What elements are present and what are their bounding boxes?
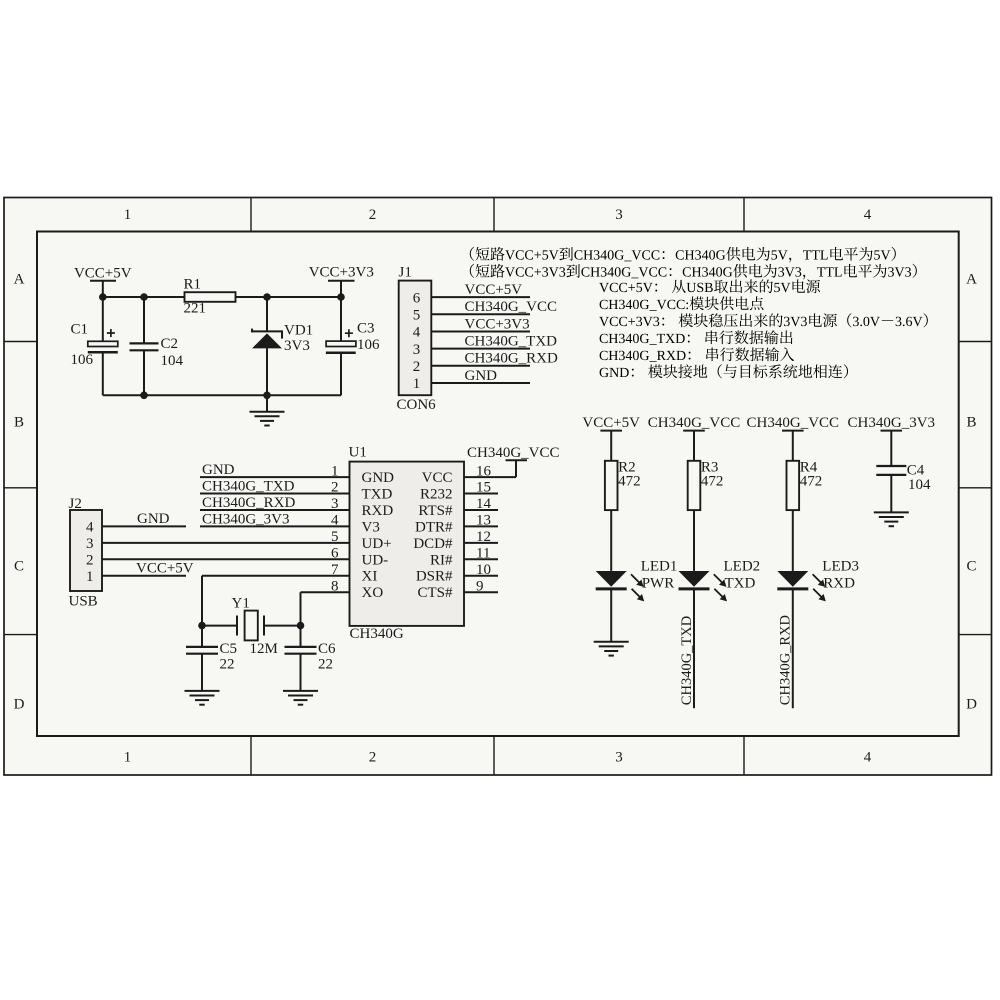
svg-text:VCC+3V3: VCC+3V3 <box>465 316 530 332</box>
svg-text:R232: R232 <box>420 487 453 503</box>
svg-text:RXD: RXD <box>362 503 394 519</box>
svg-text:3: 3 <box>86 536 94 552</box>
wire U1 pin 3 net CH340G_RXD <box>200 495 350 511</box>
svg-text:2: 2 <box>86 553 94 569</box>
svg-text:22: 22 <box>318 657 333 673</box>
svg-text:4: 4 <box>864 207 872 223</box>
wire J1 pin 5 net CH340G_VCC <box>431 299 557 315</box>
svg-text:C1: C1 <box>71 322 89 338</box>
svg-text:4: 4 <box>86 520 94 536</box>
wire U1 pin 15 stub <box>464 493 498 495</box>
svg-text:C: C <box>14 559 24 575</box>
svg-text:CON6: CON6 <box>397 397 437 413</box>
svg-text:CH340G_RXD: CH340G_RXD <box>465 351 559 367</box>
svg-text:VCC: VCC <box>422 470 453 486</box>
capacitor C5 22 <box>186 626 237 691</box>
wire U1 pin 16 VCC <box>464 461 516 477</box>
wire LED3 net CH340G_RXD <box>778 590 794 709</box>
svg-text:RXD: RXD <box>823 575 855 591</box>
svg-text:B: B <box>966 415 976 431</box>
svg-text:472: 472 <box>701 473 724 489</box>
svg-text:1: 1 <box>86 569 94 585</box>
ground symbol C5 <box>185 691 220 705</box>
wire U1 pin 11 stub <box>464 558 498 560</box>
wire U1 pin 4 net CH340G_3V3 <box>200 511 350 527</box>
LED LED3 RXD <box>777 558 859 601</box>
svg-text:GND: GND <box>202 462 235 478</box>
svg-text:1: 1 <box>124 207 132 223</box>
net label VCC+5V <box>582 415 640 461</box>
connector J1 CON6 <box>397 265 437 414</box>
annotation line 1 <box>470 247 896 263</box>
crystal Y1 12M <box>202 596 301 658</box>
svg-text:UD+: UD+ <box>362 536 392 552</box>
wire J2 pin 4 net GND <box>102 511 186 527</box>
net label CH340G_VCC <box>747 415 840 461</box>
J2 pin numbers <box>86 520 94 585</box>
wire U1 pin 13 stub <box>464 525 498 527</box>
wire U1 pin 1 net GND <box>200 462 350 478</box>
capacitor C3 electrolytic 106 <box>326 297 380 395</box>
svg-text:2: 2 <box>369 207 377 223</box>
svg-text:USB: USB <box>69 594 98 610</box>
annotation line 3 <box>599 279 820 293</box>
resistor R1 <box>184 277 236 317</box>
svg-text:GND: GND <box>137 511 170 527</box>
svg-text:V3: V3 <box>362 519 380 535</box>
svg-text:Y1: Y1 <box>232 596 250 612</box>
connector J2 USB <box>69 496 103 610</box>
svg-text:CH340G_TXD: CH340G_TXD <box>465 333 558 349</box>
svg-text:C2: C2 <box>161 336 179 352</box>
svg-text:472: 472 <box>618 473 641 489</box>
svg-text:2: 2 <box>369 750 377 766</box>
junction dots on +5V rail <box>99 293 345 301</box>
wire U1 pin 7 XI <box>202 576 350 626</box>
svg-text:DSR#: DSR# <box>416 569 453 585</box>
svg-text:CH340G_RXD: CH340G_RXD <box>202 495 296 511</box>
svg-text:LED2: LED2 <box>724 558 761 574</box>
wire J2 pin 1 net VCC+5V <box>102 561 194 577</box>
annotation line 4 <box>600 296 764 310</box>
svg-text:RTS#: RTS# <box>418 503 453 519</box>
svg-text:VCC+3V3: VCC+3V3 <box>309 265 374 281</box>
svg-text:XO: XO <box>362 585 384 601</box>
svg-text:LED3: LED3 <box>822 558 859 574</box>
wire J1 pin 1 net GND <box>431 368 530 384</box>
junction XO node <box>297 622 305 630</box>
svg-text:A: A <box>966 272 977 288</box>
wire U1 pin 8 XO <box>301 592 350 625</box>
svg-text:C3: C3 <box>357 321 375 337</box>
svg-text:CH340G_3V3: CH340G_3V3 <box>848 415 936 431</box>
ground symbol LED1 <box>594 642 629 656</box>
annotation line 5 <box>599 313 928 327</box>
wire J1 pin 4 net VCC+3V3 <box>431 316 530 332</box>
LED LED1 PWR <box>596 558 678 601</box>
junction XI node <box>198 622 206 630</box>
resistor R2 472 <box>605 459 641 510</box>
net label VCC+3V3 <box>309 265 374 298</box>
wire U1 pin 12 stub <box>464 542 498 544</box>
svg-text:C5: C5 <box>220 641 238 657</box>
svg-text:GND: GND <box>362 470 395 486</box>
annotation line 6 <box>600 330 793 345</box>
capacitor C2 104 <box>130 297 184 395</box>
J1 pin numbers <box>413 290 421 392</box>
svg-text:CH340G_3V3: CH340G_3V3 <box>202 511 290 527</box>
wire R3 to LED2 <box>693 510 695 571</box>
svg-text:2: 2 <box>413 359 421 375</box>
svg-text:R1: R1 <box>184 277 202 293</box>
svg-text:XI: XI <box>362 569 378 585</box>
svg-text:12M: 12M <box>250 641 278 657</box>
capacitor C1 electrolytic 106 <box>71 297 118 395</box>
svg-text:GND: GND <box>465 368 498 384</box>
wire +5V rail <box>103 296 341 298</box>
wire J2 pin 3 to U1 UD+ <box>102 542 350 544</box>
svg-text:TXD: TXD <box>362 487 393 503</box>
svg-text:CH340G_VCC: CH340G_VCC <box>467 445 560 461</box>
resistor R4 472 <box>787 459 823 510</box>
net label CH340G_VCC <box>648 415 741 461</box>
junction dots on ground rail <box>140 392 271 400</box>
svg-text:DCD#: DCD# <box>413 536 453 552</box>
wire J1 pin 6 net VCC+5V <box>431 282 530 298</box>
ground symbol power section <box>250 395 285 425</box>
svg-text:VCC+5V: VCC+5V <box>136 561 194 577</box>
svg-text:J1: J1 <box>399 265 412 281</box>
svg-text:CH340G_VCC: CH340G_VCC <box>747 415 840 431</box>
wire ground rail <box>103 394 341 396</box>
svg-text:104: 104 <box>908 477 931 493</box>
svg-text:U1: U1 <box>349 445 367 461</box>
svg-text:TXD: TXD <box>725 575 756 591</box>
resistor R3 472 <box>688 459 724 510</box>
capacitor C4 104 <box>876 463 931 512</box>
svg-text:1: 1 <box>413 376 421 392</box>
wire U1 pin 9 stub <box>464 591 498 593</box>
svg-text:VCC+5V: VCC+5V <box>582 415 640 431</box>
svg-text:CH340G_TXD: CH340G_TXD <box>202 479 295 495</box>
LED LED2 TXD <box>679 558 761 601</box>
svg-text:RI#: RI# <box>430 552 453 568</box>
svg-text:22: 22 <box>220 657 235 673</box>
svg-text:CTS#: CTS# <box>417 585 453 601</box>
svg-text:D: D <box>14 697 25 713</box>
svg-text:C6: C6 <box>318 641 336 657</box>
svg-text:PWR: PWR <box>642 575 675 591</box>
IC U1 CH340G <box>349 445 465 643</box>
svg-text:D: D <box>966 697 977 713</box>
svg-text:CH340G_RXD: CH340G_RXD <box>778 615 794 705</box>
svg-text:VCC+5V: VCC+5V <box>74 266 132 282</box>
wire J2 pin 2 to U1 UD- <box>102 558 350 560</box>
svg-text:LED1: LED1 <box>641 558 678 574</box>
wire J1 pin 3 net CH340G_TXD <box>431 333 557 349</box>
svg-text:VCC+5V: VCC+5V <box>465 282 523 298</box>
svg-text:6: 6 <box>413 290 421 306</box>
svg-text:B: B <box>14 415 24 431</box>
capacitor C6 22 <box>285 626 337 691</box>
svg-text:CH340G_VCC: CH340G_VCC <box>465 299 558 315</box>
svg-text:CH340G_TXD: CH340G_TXD <box>679 616 695 705</box>
U1 left pin numbers 1-8 <box>331 463 339 594</box>
wire LED2 net CH340G_TXD <box>679 590 695 709</box>
ground symbol C6 <box>283 691 318 705</box>
svg-text:CH340G: CH340G <box>350 626 404 642</box>
wire R4 to LED3 <box>792 510 794 571</box>
svg-text:5: 5 <box>413 308 421 324</box>
wire U1 pin 10 stub <box>464 575 498 577</box>
annotation line 2 <box>470 264 917 280</box>
svg-text:4: 4 <box>413 325 421 341</box>
net label CH340G_3V3 <box>848 415 936 466</box>
wire LED1 to ground <box>610 590 612 642</box>
U1 right pin numbers 16-9 <box>476 463 492 594</box>
svg-text:CH340G_VCC: CH340G_VCC <box>648 415 741 431</box>
net label CH340G_VCC at U1 pin 16 <box>467 445 560 461</box>
svg-text:106: 106 <box>357 337 380 353</box>
net label VCC+5V <box>74 266 132 298</box>
annotation line 8 <box>600 364 848 378</box>
svg-text:1: 1 <box>124 750 132 766</box>
ground symbol C4 <box>874 512 909 526</box>
svg-text:3: 3 <box>615 750 623 766</box>
svg-text:3V3: 3V3 <box>284 338 310 354</box>
svg-text:221: 221 <box>184 301 207 317</box>
wire U1 pin 2 net CH340G_TXD <box>200 479 350 495</box>
wire U1 pin 14 stub <box>464 509 498 511</box>
svg-text:A: A <box>14 272 25 288</box>
svg-text:VD1: VD1 <box>284 323 313 339</box>
annotation line 7 <box>600 347 795 362</box>
svg-text:104: 104 <box>161 353 184 369</box>
U1 pin names <box>362 470 454 601</box>
svg-text:C: C <box>966 559 976 575</box>
svg-text:3: 3 <box>615 207 623 223</box>
wire R2 to LED1 <box>610 510 612 571</box>
wire J1 pin 2 net CH340G_RXD <box>431 351 558 367</box>
svg-text:106: 106 <box>71 352 94 368</box>
svg-text:3: 3 <box>413 342 421 358</box>
svg-text:4: 4 <box>864 750 872 766</box>
svg-text:DTR#: DTR# <box>415 519 453 535</box>
svg-text:472: 472 <box>800 473 823 489</box>
zener diode VD1 3V3 <box>252 297 313 395</box>
svg-text:UD-: UD- <box>362 552 389 568</box>
